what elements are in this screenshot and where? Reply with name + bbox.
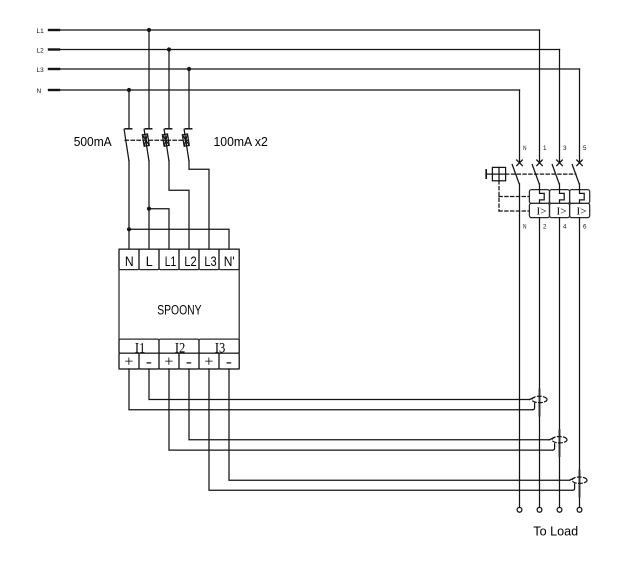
junction dot N bus	[127, 88, 131, 92]
CT1 core dashed ellipse	[532, 396, 547, 402]
Q1 handle cross vertical	[498, 167, 500, 180]
wire blade N to load	[519, 184, 521, 508]
svg-text:3: 3	[563, 145, 567, 152]
wire N drop to switch	[128, 90, 130, 128]
svg-text:I3: I3	[215, 340, 226, 356]
wire bus L2 lead stub	[49, 48, 59, 50]
U1 polarity cell I3-	[219, 353, 239, 369]
Q1 contact X pole N	[517, 160, 523, 166]
wire blade 1 into trip unit	[539, 184, 541, 190]
svg-text:SPOONY: SPOONY	[157, 302, 201, 317]
CT3 upper lead hook	[570, 478, 574, 480]
U1 input cell I3	[199, 339, 239, 353]
Q1 blade pole 5	[572, 165, 579, 184]
fuse-switch L3 blade	[184, 129, 189, 160]
U1 polarity cell I2+	[159, 353, 179, 369]
svg-text:+: +	[164, 354, 173, 371]
U1 input cell I2	[159, 339, 199, 353]
wire I1+ to CT1	[129, 369, 533, 410]
U1 polarity cell I1+	[119, 353, 139, 369]
svg-text:N: N	[523, 224, 527, 231]
wire L2 drop to fuse	[168, 50, 170, 129]
CT2 upper lead hook	[550, 438, 554, 440]
load terminal circle 4	[557, 507, 562, 512]
wire blade 3 into trip unit	[559, 184, 561, 190]
CT3 core dashed ellipse	[572, 477, 587, 483]
CT1 upper lead hook	[530, 397, 534, 399]
svg-text:N: N	[523, 145, 527, 152]
switch bank linkage (dashed)	[125, 139, 188, 141]
fuse L2 body	[162, 134, 169, 146]
svg-text:4: 4	[563, 224, 567, 231]
junction dot N branch	[127, 227, 131, 231]
svg-text:5: 5	[583, 145, 587, 152]
Q1 thermal release cell pole 1	[529, 190, 549, 204]
svg-text:1: 1	[543, 145, 547, 152]
Q1 blade pole 3	[552, 165, 559, 184]
svg-text:I2: I2	[175, 340, 186, 356]
switch N pole blade	[124, 129, 129, 160]
fuse L3 body	[182, 134, 189, 146]
breaker Q1 wire N to pole N	[519, 90, 521, 163]
svg-text:2: 2	[543, 224, 547, 231]
wire L3 drop to fuse	[188, 69, 190, 128]
svg-text:L1: L1	[165, 253, 177, 269]
svg-text:N: N	[37, 88, 42, 95]
switch N pole contact	[125, 128, 131, 130]
svg-text:+: +	[124, 354, 133, 371]
junction dot L1 bus	[147, 28, 151, 32]
fuse-switch L1 blade	[144, 129, 149, 160]
svg-text:6: 6	[583, 224, 587, 231]
Q1 thermal release symbol pole 3	[560, 190, 565, 204]
svg-text:L3: L3	[204, 253, 216, 269]
Q1 thermal release symbol pole 1	[540, 190, 545, 204]
svg-text:N: N	[125, 253, 134, 269]
Q1 handle cross horizontal	[492, 173, 505, 175]
wire N branch to terminal N'	[129, 229, 229, 249]
CT3 lower lead hook	[573, 484, 575, 490]
U1 polarity cell I1-	[139, 353, 159, 369]
wire bus L2	[49, 49, 560, 51]
breaker Q1 wire L2 to pole 3	[559, 50, 561, 163]
wire L3 fuse to terminal L3	[189, 161, 209, 250]
svg-text:I>: I>	[537, 205, 547, 217]
Q1 blade pole N	[512, 165, 519, 184]
CT1 lower lead hook	[533, 403, 535, 409]
wire bus L3	[49, 68, 580, 70]
U1 terminal cell L1	[159, 249, 179, 270]
junction dot L3 bus	[187, 67, 191, 71]
Q1 contact X pole 1	[537, 160, 543, 166]
wire I1- to CT1	[149, 369, 530, 400]
U1 polarity cell I2-	[179, 353, 199, 369]
wire I3- to CT3	[229, 369, 570, 480]
svg-text:I1: I1	[135, 340, 146, 356]
U1 terminal cell N'	[219, 249, 239, 270]
Q1 blade pole 1	[532, 165, 539, 184]
svg-text:L2: L2	[37, 48, 45, 55]
svg-text:L2: L2	[184, 253, 196, 269]
Q1 trip linkage dashed lower branch	[499, 210, 529, 212]
svg-text:L3: L3	[37, 67, 45, 74]
Q1 linkage dashed	[506, 173, 576, 175]
svg-text:L: L	[146, 253, 153, 269]
U1 terminal cell N	[119, 249, 139, 270]
fuse-switch L3 contact	[185, 128, 191, 130]
wire L1 drop to fuse	[148, 30, 150, 128]
fuse-switch L2 blade	[164, 129, 169, 160]
svg-text:-: -	[186, 354, 192, 371]
CT3 primary bar	[579, 471, 581, 497]
Q1 contact X pole 5	[577, 160, 583, 166]
Q1 trip linkage dashed vertical	[498, 181, 500, 211]
CT1 primary bar	[539, 390, 541, 416]
CT2 core dashed ellipse	[552, 437, 567, 443]
Q1 contact X pole 3	[557, 160, 563, 166]
junction dot L2 bus	[167, 47, 171, 51]
U1 terminal cell L	[139, 249, 159, 270]
junction dot L branch	[147, 207, 151, 211]
fuse L1 body	[142, 134, 149, 146]
U1 terminal cell L2	[179, 249, 199, 270]
Q1 magnetic release cell pole 3	[550, 203, 570, 217]
breaker Q1 wire L3 to pole 5	[579, 69, 581, 163]
wire blade 5 into trip unit	[579, 184, 581, 190]
wire pole 2 to load	[539, 218, 541, 508]
svg-text:To Load: To Load	[533, 524, 578, 539]
Q1 thermal release cell pole 3	[550, 190, 570, 204]
wire bus L1	[49, 29, 540, 31]
wire N to terminal N	[128, 161, 130, 250]
wire pole 4 to load	[559, 218, 561, 508]
breaker Q1 wire L1 to pole 1	[539, 30, 541, 163]
U1 polarity cell I3+	[199, 353, 219, 369]
load terminal circle N	[517, 507, 522, 512]
device U1 SPOONY outline	[119, 249, 239, 369]
svg-text:I>: I>	[577, 205, 587, 217]
wire L2 fuse to terminal L2	[169, 161, 189, 250]
fuse-switch L2 contact	[165, 128, 171, 130]
svg-text:-: -	[226, 354, 232, 371]
CT2 lower lead hook	[553, 444, 555, 450]
CT2 primary bar	[559, 430, 561, 456]
Q1 thermal release symbol pole 5	[580, 190, 585, 204]
svg-text:I>: I>	[557, 205, 567, 217]
Q1 handle stub tick	[485, 170, 487, 178]
wire L fuse output to terminal L	[148, 161, 150, 250]
wire L branch to terminal L1	[149, 209, 169, 249]
wire bus N	[49, 89, 520, 91]
load terminal circle 2	[537, 507, 542, 512]
svg-text:N': N'	[224, 253, 235, 269]
Q1 handle box	[492, 167, 505, 180]
svg-text:500mA: 500mA	[74, 134, 112, 149]
wire pole 6 to load	[579, 218, 581, 508]
fuse-switch L1 contact	[145, 128, 151, 130]
wire bus L1 lead stub	[49, 29, 59, 31]
Q1 handle lead	[486, 173, 492, 175]
svg-text:L1: L1	[37, 28, 45, 35]
wire I2- to CT2	[189, 369, 550, 440]
svg-text:+: +	[204, 354, 213, 371]
Q1 magnetic release cell pole 1	[529, 203, 549, 217]
Q1 thermal release cell pole 5	[570, 190, 590, 204]
load terminal circle 6	[577, 507, 582, 512]
svg-text:-: -	[146, 354, 152, 371]
U1 input cell I1	[119, 339, 159, 353]
wire I3+ to CT3	[209, 369, 573, 490]
wire bus L3 lead stub	[49, 68, 59, 70]
wire bus N lead stub	[49, 89, 59, 91]
Q1 magnetic release cell pole 5	[570, 203, 590, 217]
Q1 trip linkage dashed upper branch	[499, 196, 529, 198]
U1 terminal cell L3	[199, 249, 219, 270]
wire I2+ to CT2	[169, 369, 553, 450]
svg-text:100mA x2: 100mA x2	[214, 134, 268, 149]
